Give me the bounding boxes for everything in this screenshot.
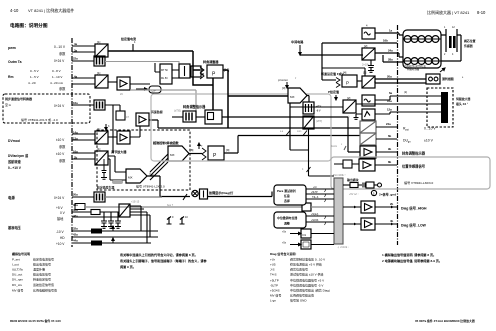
svg-text:[2]: [2] [347,96,351,100]
svg-text:参数: 参数 [59,51,66,56]
svg-text:同步速度信号转换器: 同步速度信号转换器 [5,96,33,101]
wire MX1 branch down [289,103,291,150]
svg-text:调节放大器: 调节放大器 [111,149,127,154]
svg-text:[8]: [8] [190,148,194,152]
isolator block below limiter [303,116,322,129]
svg-text:Diag 信号含义说明:: Diag 信号含义说明: [270,251,296,256]
wire HD row [72,236,158,238]
svg-text:转角调整指示器: 转角调整指示器 [183,104,206,109]
sense coil block [426,68,464,84]
diag low driver [343,218,397,230]
speed monitor amp [136,109,163,126]
svg-text:[5]: [5] [363,71,367,75]
svg-text:中间电路: 中间电路 [291,39,304,44]
svg-text:[4]: [4] [343,71,347,75]
filter block supply [94,192,105,202]
svg-text:+5/24S: +5/24S [270,289,280,293]
svg-text:1...5 V: 1...5 V [30,75,39,79]
mux MX3 [126,169,147,183]
wire isolator to sense coils [375,79,426,83]
ferrite bead +10V [72,238,151,246]
ferrite bead -10V [72,226,158,234]
oscillator block mid [362,95,375,106]
svg-text:20a: 20a [73,193,78,197]
svg-text:2×信号_gnd: 2×信号_gnd [379,192,396,197]
svg-text:⏚ 2×10k ⁵: ⏚ 2×10k ⁵ [337,245,349,249]
wire intermediate to isolator [2] [300,54,363,56]
svg-text:MX: MX [128,176,133,180]
svg-text:com: com [297,131,301,133]
legend middle paragraph [120,252,208,269]
label intermediate circuit [291,39,304,55]
svg-text:DVmod: DVmod [8,139,20,143]
wire isolator to rail [290,129,334,176]
wire relay output to angle amp [222,117,360,152]
svg-text:接地: 接地 [57,216,64,221]
setpoint label P [328,89,339,100]
svg-text:+U5: +U5 [270,263,276,267]
svg-text:J-S: J-S [270,268,275,272]
svg-text:Diag 信号_HIGH: Diag 信号_HIGH [401,206,427,211]
wire Outm input [72,60,94,62]
isolation amp [1] row5 [95,127,108,144]
label connector X4 [455,96,471,106]
wire row1 output [108,50,193,52]
filter block row4 [94,100,105,110]
svg-text:比例电磁铁信号值: 比例电磁铁信号值 [33,288,57,293]
svg-text:p=const: p=const [278,78,288,82]
wire P10 output [223,70,288,128]
dashed option box middle [97,130,190,190]
svg-text:任意: 任意 [283,193,290,198]
svg-text:MV 信号: MV 信号 [12,288,23,293]
wire MX1 out to limiter [307,96,309,103]
svg-text:12a: 12a [387,108,392,112]
svg-text:[1]: [1] [97,71,101,75]
wire 0V lines [72,212,119,217]
svg-text:0...8 V: 0...8 V [52,69,61,73]
reference row labels [7,225,65,246]
svg-text:4a: 4a [74,42,78,46]
limiter block [303,102,322,114]
wire row6 to mux MX3 [108,156,126,180]
tap ticks on setpoint rail [280,131,307,136]
test select box [274,185,306,205]
small block row4 [116,111,129,120]
wire amp row5 to monitor [130,126,140,137]
wire second coil feed [383,55,403,62]
svg-text:16b: 16b [383,39,388,43]
svg-text:24a: 24a [388,49,393,53]
svg-text:[1]: [1] [97,147,101,151]
sense block [302,203,334,211]
header right [427,9,486,15]
aux block crystal [282,240,334,249]
wire MX3 output to lamp driver [147,176,190,197]
gray option module right [331,157,490,189]
filter block row2 [94,56,105,66]
wire pwm inputs [72,46,95,52]
wire tacho line [322,43,397,80]
svg-text:±10 V: ±10 V [424,139,434,143]
svg-text:巡航给定信号值: 巡航给定信号值 [33,282,54,287]
svg-text:+Ur: +Ur [270,258,275,262]
svg-text:RE00 B5/100 4A 05 00/Ta 备件: RE00 B5/100 4A 05 00/Ta 备件 07.4.00 [10,318,61,323]
isolation amp [1] row3 [95,71,108,88]
wires test select to bus [306,186,334,202]
wire monitor to X4 [375,112,441,114]
capacitor branch row6 [96,159,123,190]
svg-text:D1: D1 [303,233,307,237]
svg-text:+5(del): +5(del) [311,214,318,216]
svg-text:MX: MX [290,95,295,99]
arrow to LIF oval [136,88,147,90]
legend left column [12,251,57,293]
svg-text:信号地 GND: 信号地 GND [290,298,307,303]
svg-text:VT 8241 | 比例放大器组件: VT 8241 | 比例放大器组件 [28,7,74,13]
lamp driver block [200,189,208,199]
svg-text:转速监视: 转速监视 [151,109,163,114]
filter capacitors to ground [101,212,121,228]
svg-text:-8 V: -8 V [316,110,321,113]
amplifier row5 [111,131,130,154]
signal gnd note [371,190,396,196]
svg-text:中位微调信号输出 (阀芯 Diag): 中位微调信号输出 (阀芯 Diag) [290,288,330,293]
svg-text:(±750): (±750) [174,110,181,113]
svg-text:-5LTP: -5LTP [270,284,278,288]
bus bar [334,178,343,244]
svg-text:24a: 24a [386,122,391,126]
input row labels DVfan [7,152,66,170]
svg-text:阀芯位置信号: 阀芯位置信号 [290,267,308,272]
svg-text:I_out: I_out [12,263,19,267]
label p=const [278,78,297,88]
series resistor 0V [91,210,100,215]
svg-text:Diag 信号_LOW: Diag 信号_LOW [401,223,427,228]
wire angle out [376,151,397,153]
wire amp out row3 [130,83,150,85]
wire P10 down to relay [212,78,214,110]
wire DVmod inputs [72,134,95,140]
tap com3 [331,144,346,150]
wire supply input [72,196,94,198]
svg-text:[3]: [3] [282,86,286,90]
legend footnotes right [382,252,442,263]
svg-text:6a: 6a [389,91,393,95]
wire 5V sense rail [85,206,302,208]
svg-text:0+24 V: 0+24 V [54,104,65,108]
svg-text:10a: 10a [387,99,392,103]
svg-text:[1]: [1] [97,40,101,44]
svg-text:2C: 2C [120,93,123,96]
svg-text:1...10 V: 1...10 V [52,75,62,79]
input row labels Rm [8,69,66,91]
aux block D1 [282,229,334,238]
svg-text:插头 X4 ¹: 插头 X4 ¹ [456,101,468,106]
wire into isolator mid [290,106,343,108]
card edge dash-dot line left [71,38,73,247]
isolation amp [2] top [362,44,375,67]
ground at monitor [354,114,363,119]
fault lamp tap [167,194,187,207]
svg-text:转速给定信号: 转速给定信号 [33,277,51,282]
svg-text:比例阀信号输出值: 比例阀信号输出值 [290,293,314,298]
oscillator block top [362,24,375,40]
svg-text:44a: 44a [73,239,78,243]
test tap 7 [198,143,203,149]
position amp [359,159,375,171]
card edge dash-dot line right [397,25,399,245]
svg-text:阅第 9 页。: 阅第 9 页。 [120,264,136,269]
wire monitor output to long rail [149,120,360,128]
svg-text:20a: 20a [387,75,392,79]
svg-text:L-gn: L-gn [270,299,276,303]
controller P10 [200,59,229,79]
svg-text:+Ur: +Ur [313,186,317,189]
svg-text:±10 V: ±10 V [56,138,65,142]
controller P9 [202,146,230,160]
svg-text:给定值发生器: 给定值发生器 [96,185,114,190]
wire row1 to P10 [193,51,213,85]
wire DVfan inputs [72,153,95,159]
svg-text:DVfan/rpm 或: DVfan/rpm 或 [8,153,29,158]
svg-text:±10 V: ±10 V [56,152,65,156]
monitor block mid [362,109,375,120]
wire P4 to isolator [357,80,362,82]
pot block [334,160,359,168]
input row labels pwm [8,45,66,56]
capacitor tap mid right [302,167,311,172]
svg-text:转速设定值 Σ或V: 转速设定值 Σ或V [321,71,344,76]
label Rpot [403,127,436,132]
svg-text:(2): (2) [404,91,407,94]
svg-text:40a: 40a [73,208,78,212]
svg-text:转角调整器: 转角调整器 [203,59,219,64]
svg-text:+5LTP: +5LTP [270,279,279,283]
input row labels Outm Ta [8,59,65,64]
svg-text:参数: 参数 [59,144,66,149]
wires trim pot to bus [306,214,334,225]
bus right RC chain [343,182,382,196]
svg-text:编号 VT8941-2X1.5 或...2.0: 编号 VT8941-2X1.5 或...2.0 [21,117,58,122]
cluster box b [179,64,190,78]
svg-text:[2]: [2] [364,44,368,48]
LIF limit block [149,86,161,93]
svg-text:参数: 参数 [59,86,66,91]
wire row4 input [72,104,94,106]
wire MX2 to P9 [189,153,202,155]
svg-text:22a: 22a [73,57,78,61]
svg-text:输出电流信号: 输出电流信号 [33,262,51,267]
title [10,22,48,29]
wire gray row3 [130,90,196,118]
svg-text:+5V ref ⁴: +5V ref ⁴ [349,192,358,196]
svg-text:2 电源模块输出信号值, 说明参阅第 8-9 页。: 2 电源模块输出信号值, 说明参阅第 8-9 页。 [382,258,442,263]
svg-text:+5 V: +5 V [56,206,64,210]
amplifier row3 [117,77,130,96]
svg-text:温度补偿: 温度补偿 [33,267,45,272]
svg-text:+15/-15: +15/-15 [131,201,140,204]
legend right column [270,251,330,303]
svg-text:4...20: 4...20 [28,81,36,85]
valve solenoid box [403,30,441,71]
svg-text:巡航转速: 巡航转速 [7,159,22,164]
wire oscillator mid out [375,96,441,100]
svg-text:DV_cru: DV_cru [12,283,22,287]
svg-text:阀芯位置: 阀芯位置 [464,38,476,43]
svg-text:-10 V: -10 V [56,230,64,234]
isolator [5] [362,76,375,88]
svg-text:基准电压: 基准电压 [7,225,22,230]
svg-text:给定值电流信号: 给定值电流信号 [33,257,54,262]
svg-text:输出模块: 输出模块 [347,177,359,182]
svg-text:+5LTP: +5LTP [311,192,318,194]
svg-text:选择: 选择 [284,198,290,203]
svg-text:测判线圈: 测判线圈 [442,76,454,81]
svg-text:2b: 2b [390,202,394,206]
svg-text:Poti 100k ³: Poti 100k ³ [333,173,346,177]
svg-text:MV 信号: MV 信号 [270,293,281,298]
label DUgn [403,139,434,144]
position transducer LVDT [444,26,457,56]
svg-text:有关插头上引脚端子、信号和连接端子（每端子）的含义，请参: 有关插头上引脚端子、信号和连接端子（每端子）的含义，请参 [120,258,208,263]
wire isolator out to valve coil bottom [375,53,403,57]
svg-text:U(LT)Ta: U(LT)Ta [12,268,23,272]
0V ground rows [57,208,78,221]
svg-text:[9]: [9] [226,148,230,152]
svg-text:0...+10 V: 0...+10 V [8,166,22,170]
wire supply rail [105,196,162,198]
svg-text:P: P [346,81,349,86]
svg-text:编号 VT8941-L2X/3.0: 编号 VT8941-L2X/3.0 [136,184,165,189]
svg-text:+5/24S: +5/24S [311,220,319,222]
wire position out [375,164,397,166]
wire filter to relay [196,116,205,118]
svg-text:Para 测试排列: Para 测试排列 [277,188,296,193]
svg-text:伺服放大器: 伺服放大器 [455,96,471,101]
svg-text:HD: HD [60,236,65,240]
isolation amp [1] row6 [95,147,108,165]
trim potentiometer box [274,212,306,228]
svg-text:模拟信号说明: 模拟信号说明 [12,251,30,256]
svg-text:T4-S: T4-S [270,273,277,277]
wire to amp row3 [108,81,117,83]
svg-text:中位微调电位器信号 -5 V: 中位微调电位器信号 -5 V [290,283,323,288]
supply row label [8,195,65,200]
svg-text:28a: 28a [388,58,393,62]
svg-text:ML 50: ML 50 [161,77,168,80]
svg-text:42a: 42a [73,233,78,237]
capacitor to ground top right [368,60,374,72]
svg-text:阀芯控制基准电压 0...10 V: 阀芯控制基准电压 0...10 V [290,257,325,262]
svg-text:32a: 32a [73,227,78,231]
svg-text:故障显示(Diag)灯: 故障显示(Diag)灯 [209,190,234,195]
svg-text:测试信号输出 ±10 V 供给: 测试信号输出 ±10 V 供给 [290,272,324,277]
mux MX2 ramp generator [152,140,189,161]
wire oscillator to coil [375,33,403,35]
wire row4 output [105,105,120,153]
svg-text:稳压电源输出 +5 V 供给: 稳压电源输出 +5 V 供给 [290,262,322,267]
input row labels DVmod [8,138,66,149]
svg-text:MX: MX [170,153,175,157]
svg-text:1 模拟输出信号值说明, 请参阅第 8 页。: 1 模拟输出信号值说明, 请参阅第 8 页。 [382,252,436,257]
isolation amp [1] row1 [95,40,108,57]
svg-text:参数: 参数 [59,158,66,163]
wire to amp row5 [108,136,117,138]
svg-text:Rm: Rm [8,75,13,79]
svg-text:位置传感器信号: 位置传感器信号 [402,164,426,169]
svg-text:比例阀放大器 | VT 8241: 比例阀放大器 | VT 8241 [427,9,470,15]
wire setpoint feed [322,68,365,76]
svg-text:+10 V: +10 V [56,242,65,246]
svg-text:Outm Ta: Outm Ta [8,60,22,64]
svg-text:16a: 16a [73,101,78,105]
wires to LVDT [441,35,461,61]
svg-text:T4L-S: T4L-S [312,197,319,199]
wire Rpot out [376,126,397,128]
wire gray enable line [105,62,179,65]
connector X4 dashed [404,88,453,127]
test point 10 [180,216,189,224]
svg-text:电路图：说明分图: 电路图：说明分图 [10,22,48,29]
wire into filter [172,116,183,118]
svg-text:转角调整指示器: 转角调整指示器 [402,151,426,156]
svg-text:8-10: 8-10 [477,10,486,15]
isolator gray DUgn [360,133,376,145]
filter block center [183,111,196,122]
wire DUgn out [376,138,397,140]
test tap v3 [105,124,110,130]
wire Rm inputs [72,78,95,84]
diag high driver [343,201,397,213]
svg-text:中位微调电位器信号 +5 V: 中位微调电位器信号 +5 V [290,278,324,283]
svg-text:中位微调电位器: 中位微调电位器 [277,215,297,220]
svg-text:传感器: 传感器 [463,43,473,48]
svg-text:4...20 mA: 4...20 mA [50,81,63,85]
svg-text:4-10: 4-10 [10,8,19,13]
svg-text:0+24 V: 0+24 V [54,59,65,63]
isolator [2] mid [343,96,356,119]
svg-text:6b: 6b [388,134,392,138]
ramp fan-in wires [150,154,168,180]
svg-text:MT 50: MT 50 [161,69,168,72]
DCDC converter [119,201,140,218]
svg-text:0...10 V: 0...10 V [424,127,436,131]
+5V row [56,203,85,210]
fault lamp [192,190,198,196]
svg-text:超驰控制/斜坡函数: 超驰控制/斜坡函数 [152,140,180,145]
isolator gray Rpot [360,121,376,133]
dashed converter box left [3,94,90,123]
svg-text:8b: 8b [388,160,392,164]
svg-text:0...10 V: 0...10 V [54,45,66,49]
svg-text:0+24 V: 0+24 V [54,196,65,200]
svg-text:DU_out: DU_out [12,273,22,277]
node stub current setpoint [120,36,136,51]
wire P9 output to rail [224,136,360,154]
svg-text:4b: 4b [390,219,394,223]
svg-text:至:A: 至:A [5,103,11,107]
svg-text:9b: 9b [388,147,392,151]
header left [10,7,74,13]
wire lamp rail [208,192,273,197]
svg-text:电源: 电源 [8,195,15,200]
cluster box c [191,66,201,77]
test point 9 [167,216,175,224]
cluster wires [155,63,204,78]
relay block [205,110,222,124]
angle indicator amp [360,146,376,158]
